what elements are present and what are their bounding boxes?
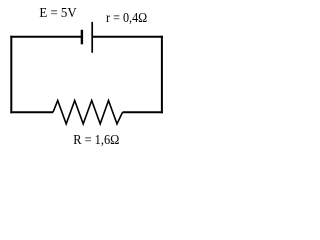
wire: top-left segment from corner to battery bbox=[10, 36, 81, 38]
battery E: left short thick plate (negative terminal) bbox=[81, 30, 83, 45]
wire: top-right segment from battery to right corner bbox=[92, 36, 163, 38]
wire: bottom-right segment from resistor to right corner bbox=[123, 111, 163, 113]
wire: bottom-left segment from corner to resistor bbox=[10, 111, 53, 113]
wire: right vertical side of loop bbox=[161, 36, 163, 114]
svg-text:R = 1,6Ω: R = 1,6Ω bbox=[73, 133, 119, 148]
resistor R zigzag element bbox=[53, 101, 123, 124]
svg-text:r = 0,4Ω: r = 0,4Ω bbox=[106, 11, 147, 26]
wire: left vertical side of loop bbox=[10, 36, 12, 114]
battery E: right long thin plate (positive terminal) bbox=[91, 22, 93, 53]
svg-text:E = 5V: E = 5V bbox=[39, 6, 76, 21]
